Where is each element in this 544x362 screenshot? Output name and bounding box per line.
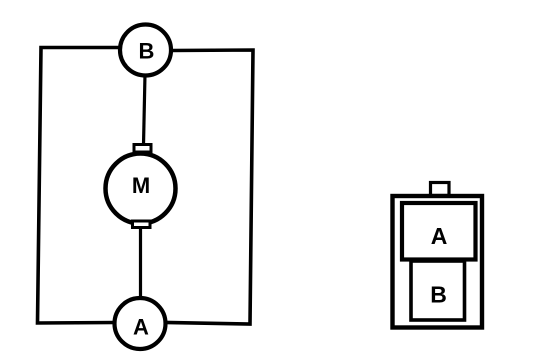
motor M bottom terminal [133,221,151,228]
svg-text:A: A [133,315,149,340]
battery part B (inner lower rectangle with letter B) [411,261,465,320]
meter B (circle with letter B) [120,25,171,76]
svg-text:B: B [430,282,447,308]
svg-text:A: A [431,223,448,249]
motor M top terminal [134,145,151,153]
svg-text:M: M [132,173,150,198]
svg-text:B: B [139,39,155,64]
wire left loop (top-left, left side, bottom-left segments) [38,48,120,324]
battery cell terminal cap [431,183,450,196]
wire from meter B to motor M [144,74,146,145]
wire from motor M to meter A [139,226,142,300]
battery cell outer case [393,196,483,328]
meter A (circle with letter A) [115,298,166,349]
wire right loop (top-right, right side, bottom-right segments) [166,50,253,324]
battery part A (inner upper rectangle with letter A) [402,203,476,260]
motor M (circle with letter M) [106,154,176,224]
